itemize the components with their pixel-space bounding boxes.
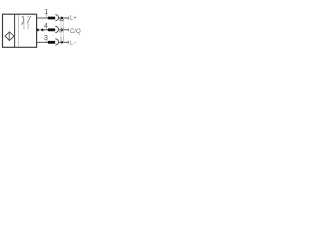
svg-text:L−: L−: [70, 40, 77, 47]
inner boundary line: [17, 15, 19, 47]
diamond center line: [8, 32, 10, 41]
switch contact S2: [27, 15, 29, 17]
wire 3: [37, 41, 50, 43]
svg-text:3: 3: [44, 33, 48, 42]
sensor body outline: [3, 14, 37, 47]
wire 4: [37, 28, 40, 31]
svg-text:L+: L+: [70, 14, 77, 21]
connector contact 1: [60, 17, 63, 20]
connector contact 3: [61, 41, 64, 44]
switch contact S1: [21, 17, 23, 25]
svg-text:C/Q: C/Q: [70, 28, 81, 35]
compartment divider: [14, 14, 16, 47]
svg-text:4: 4: [44, 21, 48, 30]
connector bus lines: [60, 18, 62, 42]
connector contact 4: [61, 29, 64, 32]
wire 1: [37, 17, 50, 19]
inductive sensor symbol (diamond): [5, 32, 14, 41]
